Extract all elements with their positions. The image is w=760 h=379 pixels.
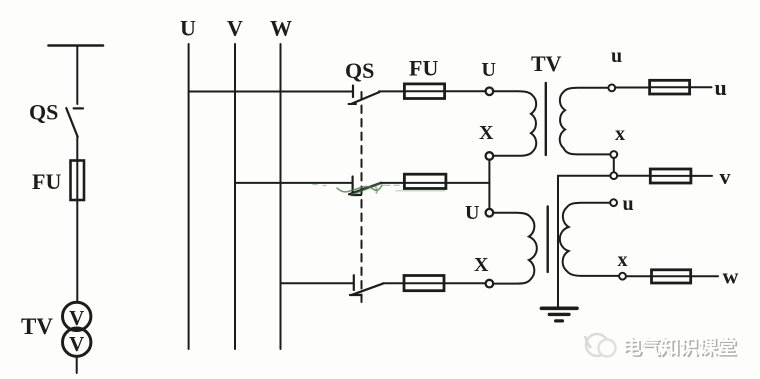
row 1 QS fixed contact tick xyxy=(352,86,354,98)
fuse w body xyxy=(652,270,691,283)
fuse FU (left) body xyxy=(71,161,85,201)
bus V line xyxy=(234,44,236,349)
row 2 wire to junction xyxy=(445,182,489,184)
transformer TV1 primary terminal X xyxy=(486,152,494,160)
svg-text:电气知识课堂: 电气知识课堂 xyxy=(622,335,736,358)
svg-text:V: V xyxy=(227,16,243,41)
svg-text:V: V xyxy=(69,332,84,356)
svg-text:x: x xyxy=(618,249,628,271)
transformer TV2 primary winding xyxy=(493,213,537,284)
svg-text:TV: TV xyxy=(21,314,53,339)
svg-text:QS: QS xyxy=(29,100,58,125)
transformer TV2 core bar xyxy=(547,207,549,273)
wire to v output xyxy=(691,175,712,177)
fuse u body xyxy=(650,80,690,94)
fuse FU (left) through wire xyxy=(76,161,78,201)
QS linkage dashed line xyxy=(361,92,363,308)
fuse v through wire xyxy=(650,175,691,177)
transformer TV1 primary winding xyxy=(493,91,536,156)
svg-text:v: v xyxy=(720,164,731,189)
svg-text:U: U xyxy=(180,16,196,41)
bus W line xyxy=(280,44,282,349)
row 2 green mark right of blade xyxy=(376,187,377,194)
row 2 fuse body xyxy=(404,174,446,188)
transformer TV1 primary terminal U xyxy=(486,88,494,96)
busbar xyxy=(49,44,104,47)
row 1 fuse through wire xyxy=(406,90,444,92)
svg-text:U: U xyxy=(465,202,479,224)
svg-text:X: X xyxy=(474,254,489,276)
svg-text:QS: QS xyxy=(345,58,374,83)
row 3 QS hinge tick xyxy=(350,294,361,296)
wire xyxy=(76,357,78,373)
transformer TV1 secondary winding xyxy=(560,88,611,155)
bus U line xyxy=(188,44,190,349)
row 2 QS hinge tick xyxy=(352,194,362,196)
svg-text:u: u xyxy=(715,75,727,100)
ground symbol xyxy=(541,306,577,310)
watermark logo xyxy=(585,334,616,357)
wire to u output xyxy=(690,86,712,88)
secondary junction node xyxy=(610,172,617,179)
row 2 green pen artifact on blade xyxy=(352,183,381,195)
row 3 wire to X terminal xyxy=(444,282,486,284)
transformer TV2 secondary terminal u xyxy=(610,199,617,206)
TV winding circle 2 xyxy=(62,328,90,356)
row 2 fuse through wire xyxy=(404,182,445,184)
grounded neutral wire xyxy=(557,176,559,307)
transformer TV1 core bar xyxy=(545,83,547,155)
fuse w through wire xyxy=(652,275,691,277)
row 3 (phase W) wire xyxy=(281,282,354,284)
transformer TV2 secondary winding xyxy=(560,203,619,276)
row 2 green pen squiggle xyxy=(337,185,382,192)
row 1 fuse body xyxy=(404,84,444,99)
row 1 QS hinge tick xyxy=(349,103,357,105)
svg-text:V: V xyxy=(69,306,84,330)
svg-text:W: W xyxy=(270,16,292,41)
row 3 fuse through wire xyxy=(404,282,444,284)
wire xyxy=(76,136,78,161)
svg-text:FU: FU xyxy=(409,56,438,81)
svg-text:TV: TV xyxy=(531,51,562,76)
svg-text:X: X xyxy=(479,122,494,144)
row 2 green speckles on wire xyxy=(383,184,399,186)
svg-text:U: U xyxy=(482,59,496,81)
row 2 QS blade xyxy=(349,183,381,195)
wire junction to fuse v xyxy=(617,175,650,177)
row 2 green dots artifact xyxy=(313,185,326,186)
svg-text:u: u xyxy=(623,193,634,215)
wire junction to ground corner xyxy=(558,175,610,177)
row 1 wire to U terminal xyxy=(444,90,486,92)
row 1 wire xyxy=(379,90,406,92)
fuse u through wire xyxy=(650,86,690,88)
transformer TV2 primary terminal U xyxy=(486,209,494,217)
wire x1 down to junction xyxy=(613,158,615,172)
svg-text:w: w xyxy=(723,264,739,289)
row 2 green underline below fuse xyxy=(396,190,445,192)
wire X1 down to V row xyxy=(488,159,490,209)
transformer TV1 secondary terminal x xyxy=(610,151,617,158)
row 2 (phase V) wire xyxy=(235,182,353,184)
TV winding circle 1 xyxy=(62,302,90,330)
row 1 QS blade xyxy=(351,92,380,104)
wire xyxy=(76,46,78,105)
row 3 QS fixed contact tick xyxy=(353,275,355,290)
svg-text:FU: FU xyxy=(32,169,61,194)
row 3 fuse body xyxy=(404,276,444,291)
wire u1 to fuse u xyxy=(615,87,649,89)
disconnector QS (left) fixed contact tick xyxy=(74,107,83,109)
disconnector QS (left) blade xyxy=(66,108,77,137)
row 3 wire xyxy=(383,282,404,284)
wire to w output xyxy=(691,275,718,277)
row 1 (phase U) wire xyxy=(189,91,353,93)
svg-text:u: u xyxy=(611,45,622,67)
transformer TV2 primary terminal X xyxy=(486,280,494,288)
row 3 QS blade xyxy=(352,283,384,294)
fuse v body xyxy=(650,169,691,183)
row 2 wire xyxy=(381,182,404,184)
wire xyxy=(76,200,78,302)
transformer TV2 secondary terminal x xyxy=(619,273,626,280)
wire x2 to fuse w xyxy=(626,275,652,277)
transformer TV1 secondary terminal u xyxy=(608,85,615,92)
row 2 QS fixed contact tick xyxy=(352,177,354,192)
svg-text:x: x xyxy=(615,123,625,145)
